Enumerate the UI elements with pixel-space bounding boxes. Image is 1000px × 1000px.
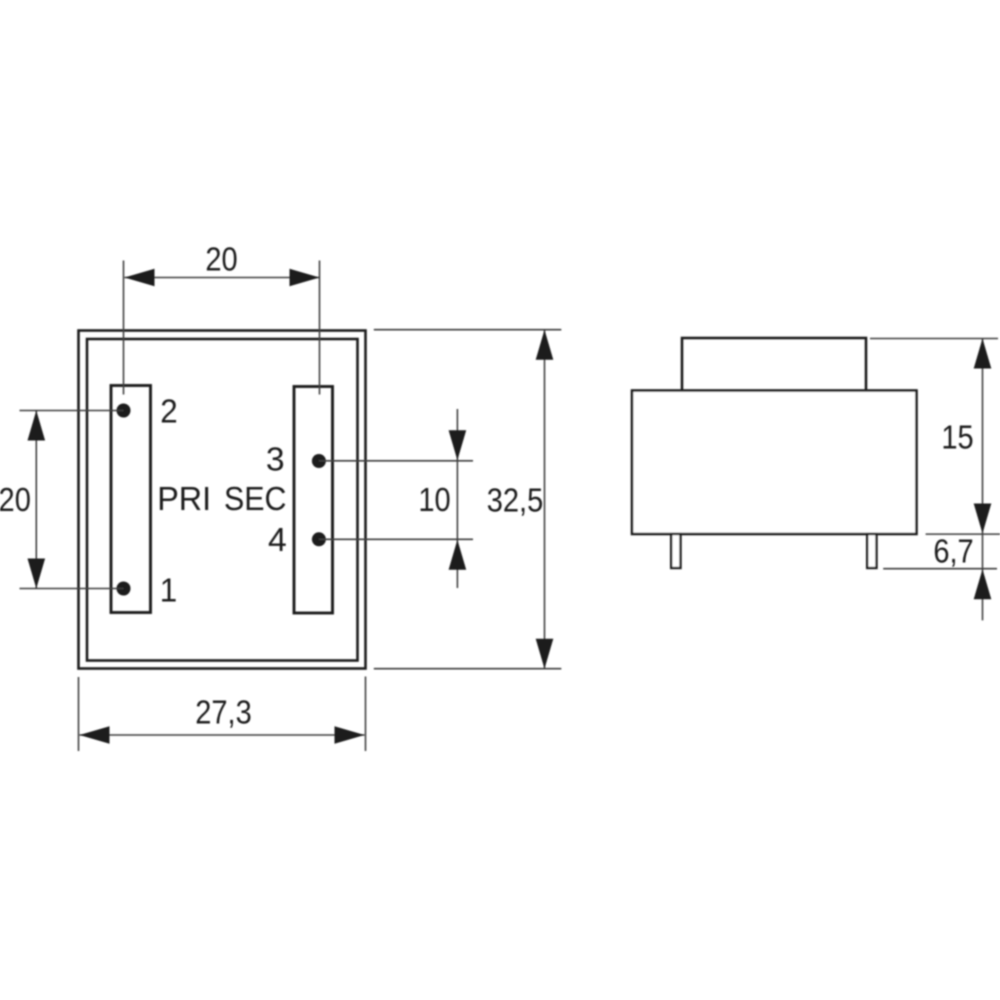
dim 10: lower arrowhead pointing up: [449, 540, 467, 570]
dim 27,3: extension line right: [365, 677, 367, 752]
side view right leg: [867, 534, 876, 568]
dim 20 left: leader to pin 2: [20, 410, 124, 412]
dim 32,5: bottom arrowhead: [536, 639, 554, 669]
svg-text:PRI: PRI: [157, 480, 211, 517]
dim 15/6,7: extension line middle: [926, 533, 1000, 535]
svg-text:15: 15: [941, 419, 973, 456]
dim 15: top arrowhead: [974, 339, 992, 369]
svg-text:20: 20: [205, 241, 237, 278]
transformer front view outer case: [79, 331, 366, 669]
side view left leg: [671, 534, 680, 568]
dim 27,3: left arrowhead: [80, 726, 110, 744]
dim 20 left: top arrowhead: [28, 411, 46, 441]
dim 20 top: right arrowhead: [290, 269, 320, 287]
dim 10: leader from pin 4: [319, 538, 473, 540]
pin 4 dot: [312, 532, 326, 546]
dim 20 top: dimension line: [125, 277, 320, 279]
dim 27,3: extension line left: [78, 677, 80, 751]
dim 20 left: dimension line: [35, 411, 37, 588]
dim 10: leader from pin 3: [319, 460, 473, 462]
dim 10: dimension line: [456, 409, 458, 588]
dim 32,5: extension line top: [374, 329, 562, 331]
svg-text:20: 20: [0, 481, 31, 518]
svg-text:2: 2: [160, 393, 177, 430]
svg-text:SEC: SEC: [224, 480, 286, 517]
svg-text:4: 4: [268, 522, 287, 559]
primary pad rectangle: [111, 386, 151, 613]
svg-text:32,5: 32,5: [487, 482, 544, 519]
pin 2 dot: [117, 404, 131, 418]
dim 20 top: extension line right: [319, 261, 321, 395]
dim 20 top: left arrowhead: [125, 269, 155, 287]
side view main body rectangle: [632, 391, 917, 535]
dim 27,3: dimension line: [80, 734, 365, 736]
dim 32,5: dimension line: [544, 330, 546, 669]
dim 15: bottom arrowhead pointing down: [974, 504, 992, 534]
svg-text:10: 10: [418, 481, 450, 518]
pin 1 dot: [117, 582, 131, 596]
dim 32,5: top arrowhead: [536, 330, 554, 360]
dim 6,7: bottom arrowhead pointing up: [974, 569, 992, 599]
dim 10: upper arrowhead pointing down: [449, 430, 467, 460]
dim 27,3: right arrowhead: [335, 726, 365, 744]
dim 20 top: extension line left: [123, 261, 125, 395]
dim 20 left: bottom arrowhead: [28, 559, 46, 589]
svg-text:6,7: 6,7: [933, 533, 973, 570]
svg-text:3: 3: [266, 442, 285, 479]
dim 15/6,7: dimension line: [982, 339, 984, 621]
dim 32,5: extension line bottom: [374, 668, 562, 670]
side view bobbin top rectangle: [682, 338, 866, 391]
transformer front view inner case line: [87, 339, 358, 661]
svg-text:1: 1: [160, 572, 177, 609]
dim 6,7: extension line bottom: [883, 568, 997, 570]
pin 3 dot: [312, 454, 326, 468]
secondary pad rectangle: [294, 387, 333, 614]
dim 20 left: leader to pin 1: [20, 588, 124, 590]
svg-text:27,3: 27,3: [195, 694, 252, 731]
dim 15: extension line top: [870, 338, 998, 340]
